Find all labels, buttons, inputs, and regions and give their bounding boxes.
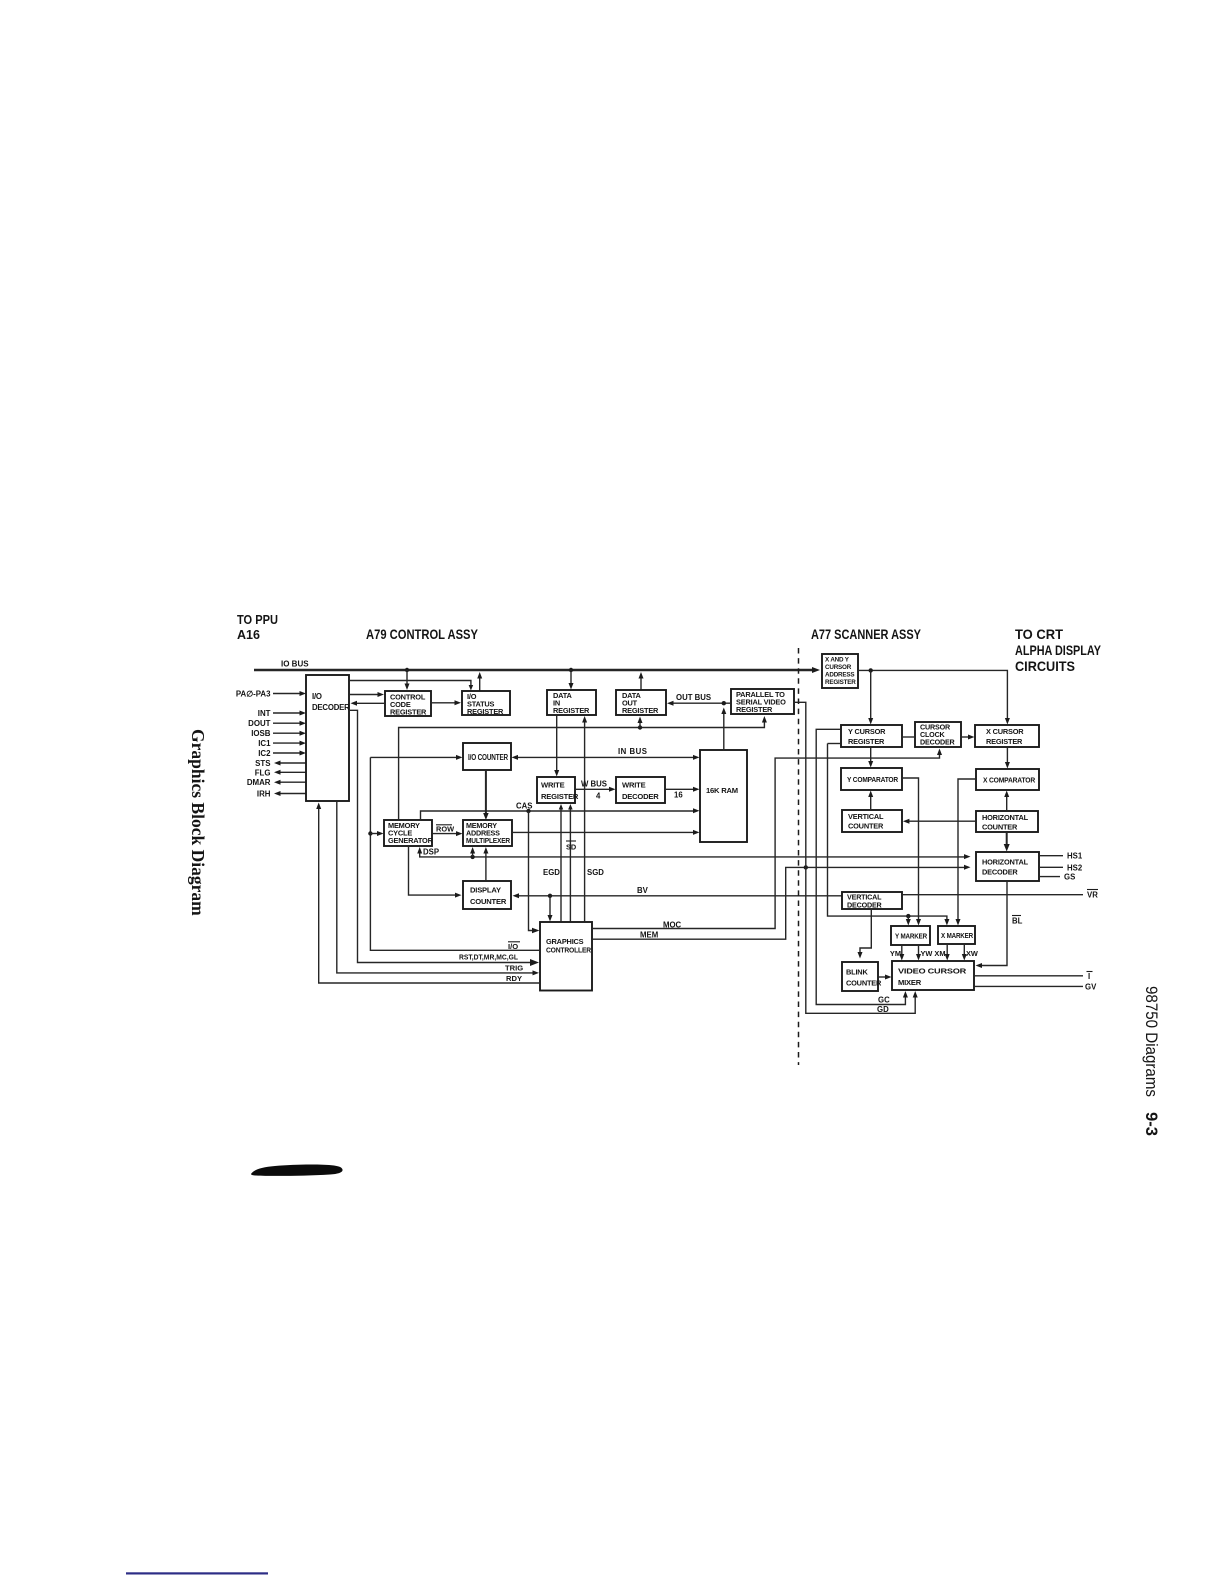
svg-text:REGISTER: REGISTER	[390, 708, 427, 717]
label TRIG	[505, 964, 523, 973]
svg-text:STS: STS	[255, 759, 270, 768]
label MEM	[640, 930, 658, 939]
wire HS2	[1039, 866, 1063, 868]
svg-text:I/O: I/O	[508, 942, 518, 951]
wire I/O DECODER to I/O STATUS REGISTER top	[349, 681, 473, 691]
svg-text:X AND Y: X AND Y	[825, 657, 850, 664]
svg-text:Y COMPARATOR: Y COMPARATOR	[847, 775, 899, 784]
svg-text:TO CRT: TO CRT	[1015, 626, 1063, 642]
svg-text:DMAR: DMAR	[247, 778, 271, 787]
svg-text:WRITE: WRITE	[622, 781, 646, 790]
block X MARKER	[938, 926, 975, 944]
margin title Graphics Block Diagram	[188, 729, 208, 916]
wire DATA OUT REGISTER bottom tap	[638, 717, 643, 728]
svg-text:I: I	[1088, 972, 1090, 981]
svg-text:IOSB: IOSB	[251, 729, 271, 738]
block X AND Y CURSOR ADDRESS REGISTER	[822, 654, 858, 688]
wire HORIZONTAL COUNTER to VERTICAL COUNTER	[903, 819, 976, 824]
label IN BUS	[618, 747, 647, 756]
svg-text:COUNTER: COUNTER	[982, 823, 1018, 832]
wire IC2	[273, 751, 306, 756]
svg-text:4: 4	[596, 792, 601, 801]
block PARALLEL TO SERIAL VIDEO REGISTER	[731, 689, 794, 714]
wire X AND Y CURSOR ADDRESS REGISTER to cursor registers	[858, 668, 1010, 724]
wire FLG	[274, 770, 306, 775]
svg-text:Graphics Block Diagram: Graphics Block Diagram	[188, 729, 208, 916]
wire VR	[902, 894, 1083, 896]
svg-text:IRH: IRH	[257, 790, 271, 799]
wire DATA OUT REGISTER to bus	[639, 672, 644, 690]
wire GV	[974, 985, 1083, 987]
label DOUT	[248, 719, 271, 728]
svg-text:DECODER: DECODER	[982, 868, 1018, 877]
wire W BUS	[575, 787, 616, 792]
svg-text:Y MARKER: Y MARKER	[895, 932, 928, 941]
wire I/O DECODER to CONTROL CODE REGISTER	[349, 692, 384, 697]
wire CAS branch to GRAPHICS CONTROLLER	[529, 811, 540, 933]
block DATA OUT REGISTER	[616, 690, 666, 715]
title A79 CONTROL ASSY	[366, 626, 479, 642]
wire IC1	[273, 741, 306, 746]
wire INT	[273, 711, 306, 716]
label EGD	[543, 868, 560, 877]
svg-text:SGD: SGD	[587, 868, 604, 877]
svg-text:HORIZONTAL: HORIZONTAL	[982, 858, 1029, 867]
footer blue rule	[126, 1572, 268, 1574]
svg-text:GV: GV	[1085, 982, 1097, 991]
wire I/O COUNTER to MEMORY ADDRESS MULTIPLEXER	[483, 770, 489, 820]
label GC	[878, 995, 890, 1004]
label GS	[1064, 873, 1075, 882]
wire IO BUS	[254, 667, 820, 673]
wire bus to CONTROL CODE REGISTER	[405, 670, 410, 690]
wire ROW	[432, 831, 463, 836]
wire MEMORY ADDRESS MULTIPLEXER to 16K RAM	[512, 830, 700, 835]
svg-text:CURSOR: CURSOR	[825, 664, 852, 671]
svg-text:BV: BV	[637, 886, 649, 895]
svg-text:CONTROLLER: CONTROLLER	[546, 946, 592, 955]
wire marker feed	[828, 744, 950, 926]
svg-text:X CURSOR: X CURSOR	[986, 727, 1024, 736]
wire VERTICAL COUNTER to Y COMPARATOR	[868, 791, 873, 811]
wire HORIZONTAL COUNTER to X COMPARATOR	[1004, 791, 1009, 812]
wire Y CURSOR REGISTER to CURSOR CLOCK DECODER	[902, 736, 915, 738]
wire GS	[1039, 876, 1060, 878]
svg-text:DSP: DSP	[423, 847, 439, 856]
svg-text:98750 Diagrams: 98750 Diagrams	[1142, 986, 1160, 1097]
label STS	[255, 759, 270, 768]
label SGD	[587, 868, 604, 877]
svg-text:FLG: FLG	[255, 768, 271, 777]
svg-text:A16: A16	[237, 627, 260, 642]
block Y CURSOR REGISTER	[841, 725, 902, 747]
block CONTROL CODE REGISTER	[385, 691, 431, 717]
svg-text:I/O COUNTER: I/O COUNTER	[468, 753, 508, 762]
label SD	[566, 841, 577, 852]
label I out	[1087, 972, 1093, 981]
block X COMPARATOR	[976, 769, 1039, 790]
svg-text:HORIZONTAL: HORIZONTAL	[982, 813, 1029, 822]
label MOC	[663, 920, 682, 929]
svg-text:MEM: MEM	[640, 930, 658, 939]
wire YM	[899, 945, 904, 961]
wire CONTROL CODE REGISTER to I/O STATUS REGISTER	[431, 700, 461, 705]
svg-text:COUNTER: COUNTER	[848, 822, 884, 831]
wire CURSOR CLOCK DECODER to X CURSOR REGISTER	[961, 735, 975, 740]
wire BL	[976, 881, 1008, 968]
wire DSP	[417, 847, 970, 859]
wire HS1	[1039, 855, 1063, 857]
block DISPLAY COUNTER	[463, 881, 511, 909]
svg-text:COUNTER: COUNTER	[470, 897, 507, 906]
wire GD	[794, 702, 918, 1013]
wire X COMPARATOR to X MARKER	[956, 779, 977, 926]
svg-text:ADDRESS: ADDRESS	[825, 672, 854, 679]
wire I output	[974, 975, 1083, 977]
svg-text:Y CURSOR: Y CURSOR	[848, 727, 886, 736]
svg-text:GENERATOR: GENERATOR	[388, 836, 434, 845]
block I/O DECODER U-IOD	[306, 675, 350, 801]
svg-text:BL: BL	[1012, 917, 1023, 926]
wire DATA IN REGISTER to GRAPHICS CONTROLLER (SGD)	[582, 716, 587, 922]
label INT	[258, 709, 271, 718]
svg-text:REGISTER: REGISTER	[467, 707, 504, 716]
svg-text:ROW: ROW	[436, 824, 454, 833]
label 16	[674, 791, 683, 800]
block HORIZONTAL DECODER	[976, 852, 1039, 881]
label GD	[877, 1005, 889, 1014]
wire IN BUS left segment	[370, 755, 462, 760]
svg-text:DECODER: DECODER	[312, 703, 350, 712]
block Y COMPARATOR	[841, 768, 902, 790]
svg-text:VIDEO CURSOR: VIDEO CURSOR	[898, 967, 967, 976]
block I/O COUNTER	[463, 743, 511, 770]
label 4	[596, 792, 601, 801]
wire GC	[816, 729, 908, 1004]
block GRAPHICS CONTROLLER	[540, 922, 592, 991]
block HORIZONTAL COUNTER	[976, 811, 1038, 832]
label OUT BUS	[676, 693, 711, 702]
svg-text:OUT BUS: OUT BUS	[676, 693, 711, 702]
svg-text:TRIG: TRIG	[505, 964, 523, 973]
block MEMORY ADDRESS MULTIPLEXER	[463, 820, 512, 846]
svg-text:REGISTER: REGISTER	[986, 737, 1023, 746]
label VR	[1087, 890, 1098, 900]
svg-text:REGISTER: REGISTER	[553, 706, 590, 715]
label GV	[1085, 982, 1097, 991]
svg-text:I/O: I/O	[312, 692, 322, 701]
svg-text:MULTIPLEXER: MULTIPLEXER	[466, 836, 511, 845]
wire DOUT	[273, 721, 306, 726]
svg-text:VR: VR	[1087, 891, 1098, 900]
label W BUS	[581, 779, 607, 788]
svg-text:PA∅-PA3: PA∅-PA3	[236, 690, 271, 699]
block Y MARKER	[891, 926, 930, 945]
svg-text:A77 SCANNER ASSY: A77 SCANNER ASSY	[811, 626, 922, 642]
svg-text:MIXER: MIXER	[898, 978, 922, 987]
svg-text:DECODER: DECODER	[920, 738, 956, 747]
wire IN BUS right segment	[512, 755, 700, 760]
wire in-bus distribution line	[399, 716, 767, 821]
wire MOC	[592, 749, 942, 929]
svg-text:REGISTER: REGISTER	[622, 706, 659, 715]
svg-text:YM: YM	[890, 949, 901, 958]
label RDY	[506, 974, 522, 983]
svg-text:DECODER: DECODER	[622, 792, 659, 801]
title TO CRT ALPHA DISPLAY CIRCUITS	[1015, 626, 1102, 674]
block DATA IN REGISTER	[547, 690, 596, 715]
svg-text:RST,DT,MR,MC,GL: RST,DT,MR,MC,GL	[459, 953, 518, 962]
wire PA0-PA3	[273, 691, 306, 696]
label YW	[921, 949, 933, 958]
svg-text:XM: XM	[934, 949, 945, 958]
wire I/O branch to MEMORY CYCLE GENERATOR	[370, 831, 383, 836]
label BL	[1012, 916, 1023, 926]
wire OUT BUS	[667, 701, 731, 706]
svg-text:EGD: EGD	[543, 868, 560, 877]
svg-text:HS1: HS1	[1067, 852, 1083, 861]
svg-text:IN BUS: IN BUS	[618, 747, 647, 756]
wire DMAR	[274, 780, 306, 785]
wire MEMORY CYCLE GENERATOR to DISPLAY COUNTER	[409, 846, 462, 898]
label RST,DT,MR,MC,GL	[459, 953, 518, 962]
wire XW	[962, 944, 967, 961]
label ROW	[436, 824, 454, 833]
label IOSB	[251, 729, 271, 738]
block VERTICAL DECODER	[842, 892, 902, 910]
block I/O STATUS REGISTER	[462, 691, 510, 716]
svg-text:16K RAM: 16K RAM	[706, 786, 738, 795]
label XM	[934, 949, 945, 958]
svg-text:GS: GS	[1064, 873, 1075, 882]
block X CURSOR REGISTER	[975, 725, 1039, 747]
wire HORIZONTAL COUNTER to HORIZONTAL DECODER	[1004, 832, 1010, 852]
block 16K RAM	[700, 750, 747, 842]
wire MEMORY ADDRESS MULTIPLEXER to DISPLAY COUNTER	[483, 847, 488, 881]
separator A79/A77 dashed line	[798, 648, 800, 1065]
svg-text:A79 CONTROL ASSY: A79 CONTROL ASSY	[366, 626, 479, 642]
svg-text:DISPLAY: DISPLAY	[470, 886, 501, 895]
wire Y COMPARATOR to Y MARKER	[902, 778, 921, 926]
wire bus to DATA IN REGISTER	[569, 670, 574, 690]
block VERTICAL COUNTER	[842, 810, 902, 832]
block BLINK COUNTER	[842, 962, 882, 991]
svg-text:DECODER: DECODER	[847, 901, 883, 910]
scan artifact black mark	[251, 1165, 343, 1176]
wire YW	[916, 945, 921, 961]
wire CAS	[421, 808, 700, 820]
wire 16K RAM to OUT BUS	[721, 708, 726, 751]
svg-text:MOC: MOC	[663, 920, 682, 929]
svg-text:BLINK: BLINK	[846, 968, 868, 977]
wire BV	[513, 893, 843, 898]
svg-text:RDY: RDY	[506, 974, 522, 983]
label HS1	[1067, 852, 1083, 861]
wire to Y CURSOR REGISTER top	[868, 670, 873, 724]
label HS2	[1067, 863, 1083, 872]
svg-text:9-3: 9-3	[1142, 1112, 1160, 1136]
svg-text:GD: GD	[877, 1005, 889, 1014]
svg-text:CAS: CAS	[516, 801, 532, 810]
title TO PPU / A16	[237, 612, 278, 642]
label IRH	[257, 790, 271, 799]
label BV	[637, 886, 649, 895]
title A77 SCANNER ASSY	[811, 626, 922, 642]
wire CONTROL CODE REGISTER to I/O DECODER	[351, 701, 386, 706]
wire DSP branch to MEMORY ADDRESS MULTIPLEXER	[470, 847, 475, 857]
svg-text:REGISTER: REGISTER	[848, 737, 885, 746]
svg-text:COUNTER: COUNTER	[846, 979, 882, 988]
wire EGD	[559, 804, 564, 922]
label IO BUS	[281, 660, 309, 669]
wire I/O STATUS REGISTER to bus	[477, 672, 482, 691]
svg-text:HS2: HS2	[1067, 863, 1083, 872]
label I/O	[508, 942, 520, 951]
svg-text:XW: XW	[966, 949, 978, 958]
block MEMORY CYCLE GENERATOR	[384, 820, 434, 846]
wire XM	[945, 944, 950, 961]
wire RST DT MR MC GL	[349, 710, 539, 966]
svg-text:IO BUS: IO BUS	[281, 660, 309, 669]
svg-text:REGISTER: REGISTER	[736, 705, 773, 714]
block WRITE REGISTER	[537, 777, 579, 803]
svg-text:SD: SD	[566, 843, 577, 852]
svg-text:GC: GC	[878, 995, 890, 1004]
wire STS	[274, 761, 306, 766]
label DMAR	[247, 778, 271, 787]
block CURSOR CLOCK DECODER	[915, 722, 961, 747]
wire Y CURSOR REGISTER to Y COMPARATOR	[868, 747, 873, 768]
wire BLINK COUNTER to VIDEO CURSOR MIXER	[878, 975, 892, 980]
wire marker feed to Y MARKER	[906, 916, 911, 925]
svg-text:CIRCUITS: CIRCUITS	[1015, 658, 1075, 674]
wire MEM	[592, 865, 971, 940]
block VIDEO CURSOR MIXER	[892, 961, 974, 990]
wire BV branch to GRAPHICS CONTROLLER	[548, 896, 553, 922]
svg-text:IC1: IC1	[258, 739, 271, 748]
svg-text:ALPHA DISPLAY: ALPHA DISPLAY	[1015, 642, 1102, 658]
svg-text:VERTICAL: VERTICAL	[848, 812, 884, 821]
wire WRITE DECODER to 16K RAM	[665, 787, 700, 792]
svg-text:YW: YW	[921, 949, 933, 958]
label FLG	[255, 768, 271, 777]
wire I/O feedback	[368, 757, 540, 950]
svg-text:REGISTER: REGISTER	[825, 679, 856, 686]
label IC2	[258, 749, 271, 758]
margin text 98750 Diagrams	[1142, 986, 1160, 1097]
svg-text:TO PPU: TO PPU	[237, 612, 278, 627]
label CAS	[516, 801, 532, 810]
block WRITE DECODER	[616, 777, 665, 803]
label PA0-PA3	[236, 690, 271, 699]
svg-text:DOUT: DOUT	[248, 719, 271, 728]
svg-text:X MARKER: X MARKER	[941, 931, 974, 940]
wire SD	[568, 804, 573, 922]
svg-text:W BUS: W BUS	[581, 779, 607, 788]
label DSP	[423, 847, 439, 856]
margin page number 9-3	[1142, 1112, 1160, 1136]
wire DATA IN REGISTER to WRITE REGISTER	[554, 715, 559, 777]
wire X CURSOR REGISTER to X COMPARATOR	[1005, 747, 1010, 769]
wire TRIG	[337, 801, 539, 975]
wire IRH	[274, 791, 306, 796]
svg-text:INT: INT	[258, 709, 271, 718]
svg-text:IC2: IC2	[258, 749, 271, 758]
label IC1	[258, 739, 271, 748]
wire RDY	[316, 803, 540, 984]
svg-text:X COMPARATOR: X COMPARATOR	[983, 776, 1036, 785]
svg-text:16: 16	[674, 791, 683, 800]
wire VERTICAL DECODER to BLINK COUNTER	[858, 909, 872, 959]
label XW	[966, 949, 978, 958]
svg-text:REGISTER: REGISTER	[541, 792, 579, 801]
label YM	[890, 949, 901, 958]
svg-text:WRITE: WRITE	[541, 781, 565, 790]
wire IOSB	[273, 731, 306, 736]
